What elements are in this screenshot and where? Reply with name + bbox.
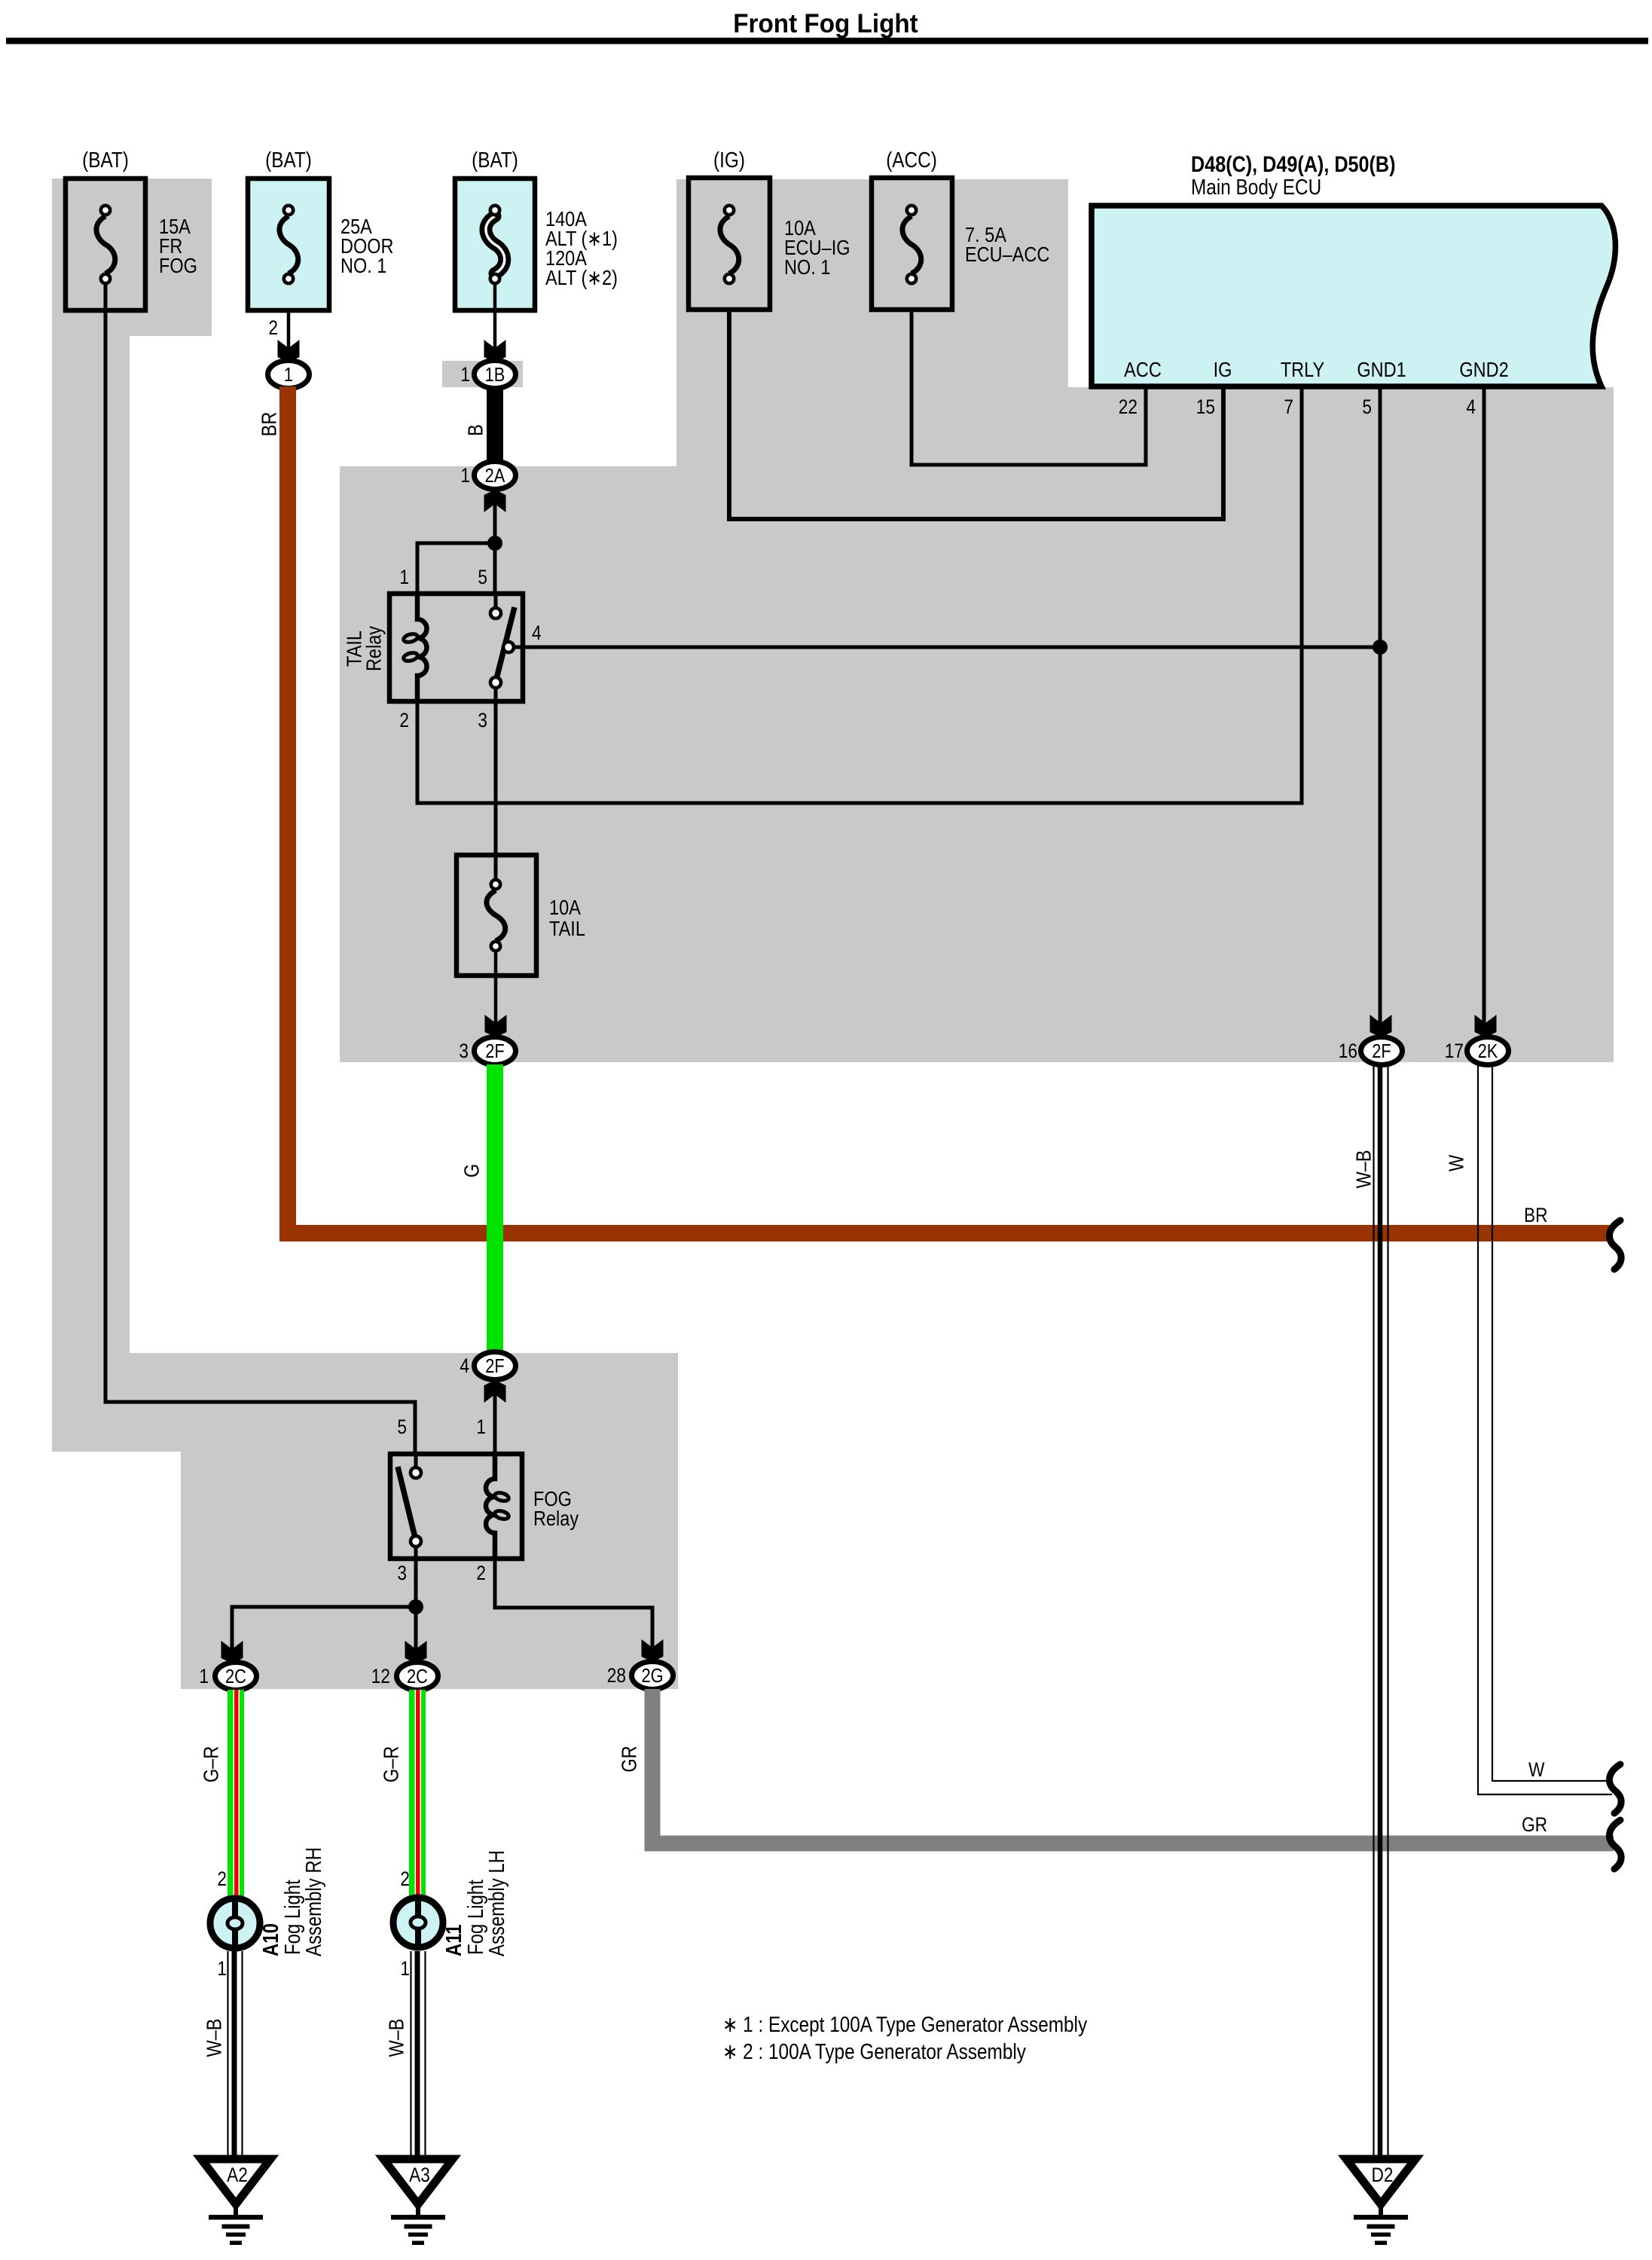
label W-B at A3 <box>386 2019 408 2057</box>
svg-text:GND1: GND1 <box>1357 359 1406 381</box>
wire G (green) 3 2F to 4 2F <box>487 1064 503 1354</box>
wire TAIL fuse to 3 2F <box>494 951 498 1026</box>
wire GR (gray) 28 2G to right edge <box>652 1689 1614 1843</box>
svg-text:5: 5 <box>397 1416 407 1438</box>
svg-text:FOG: FOG <box>159 255 197 277</box>
svg-text:(IG): (IG) <box>713 148 745 172</box>
wire FR FOG fuse down-left to FOG relay pin5 <box>105 283 415 1454</box>
connector 4 2F (oval) <box>475 1352 516 1380</box>
svg-text:2: 2 <box>217 1868 227 1890</box>
svg-text:1B: 1B <box>485 364 505 386</box>
svg-text:ALT (∗2): ALT (∗2) <box>545 267 618 289</box>
svg-text:2A: 2A <box>485 465 505 487</box>
svg-text:5: 5 <box>1362 395 1372 418</box>
label FOG relay pin 1 <box>476 1416 486 1438</box>
svg-text:3: 3 <box>397 1562 407 1584</box>
fog light bulb A11 <box>393 1895 443 1950</box>
svg-text:2G: 2G <box>641 1665 663 1687</box>
TAIL relay box <box>389 594 523 701</box>
svg-text:2: 2 <box>399 709 409 731</box>
label pin 2 at DOOR fuse <box>268 316 278 339</box>
wire W-B fog RH to ground A2 <box>228 1951 243 2156</box>
label (BAT) for 25A DOOR <box>265 148 312 172</box>
wire TAIL relay pin4 to GND1 line <box>513 646 1380 649</box>
svg-text:2F: 2F <box>485 1040 504 1062</box>
svg-text:TAIL: TAIL <box>549 918 585 940</box>
wire ECU-ACC fuse to ECU ACC pin22 <box>912 310 1146 465</box>
wire FOG relay pin3 down to junction <box>414 1559 418 1607</box>
svg-text:3: 3 <box>459 1040 469 1062</box>
arrow into 28 2G <box>642 1639 664 1662</box>
wire FOG relay pin2 to 28 2G <box>495 1559 652 1650</box>
svg-text:4: 4 <box>460 1354 469 1377</box>
note *1 *2 <box>722 2012 1088 2063</box>
svg-text:16: 16 <box>1339 1040 1357 1062</box>
FOG relay coil <box>486 1454 509 1559</box>
label pin 17 <box>1445 1040 1464 1062</box>
label (BAT) for 15A FR FOG <box>82 148 129 172</box>
label (ACC) <box>886 148 937 172</box>
label W-B at A2 <box>203 2019 226 2057</box>
label pin 4 at 2F <box>460 1354 469 1377</box>
label pin 2 at A11 <box>400 1868 410 1890</box>
svg-text:5: 5 <box>478 566 487 588</box>
wire BR (brown) connector 1 to right edge <box>288 386 1613 1233</box>
ECU pin number 15 <box>1196 395 1215 418</box>
arrow into connector 1 <box>278 340 300 362</box>
svg-text:Main Body ECU: Main Body ECU <box>1191 175 1321 199</box>
svg-text:BR: BR <box>258 412 281 437</box>
title Front Fog Light <box>733 9 918 38</box>
label pin 1 at 1B <box>460 363 470 386</box>
connector 1 2C (oval) <box>215 1663 257 1690</box>
svg-text:10A: 10A <box>549 896 582 919</box>
connector 1B (oval) <box>475 361 516 389</box>
svg-text:Assembly RH: Assembly RH <box>301 1847 325 1956</box>
wire ECU-IG fuse to ECU IG pin15 <box>729 310 1223 519</box>
continuation squiggle BR <box>1609 1220 1621 1269</box>
svg-text:15: 15 <box>1196 395 1215 418</box>
svg-text:1: 1 <box>460 464 470 487</box>
label (BAT) for ALT <box>472 148 518 172</box>
arrow into 16 2F <box>1370 1015 1392 1037</box>
wire junction to TAIL relay pin5 <box>493 543 497 594</box>
wire B (black) 1B to 2A <box>487 388 503 461</box>
svg-text:Front Fog Light: Front Fog Light <box>733 9 918 38</box>
label Main Body ECU <box>1191 175 1321 199</box>
ground A3 <box>383 2159 453 2245</box>
label pin 16 <box>1339 1040 1357 1062</box>
continuation squiggle W <box>1609 1764 1621 1813</box>
ECU D48/D49/D50 Main Body ECU box <box>1092 206 1615 386</box>
title rule <box>6 38 1648 44</box>
label G-R right <box>380 1746 403 1782</box>
svg-text:(BAT): (BAT) <box>265 148 312 172</box>
connector 1 (oval) <box>268 361 310 389</box>
arrow into 12 2C <box>405 1641 427 1663</box>
svg-text:W–B: W–B <box>386 2019 408 2057</box>
svg-text:2: 2 <box>476 1562 486 1584</box>
connector 17 2K (oval) <box>1467 1037 1509 1065</box>
ECU pin name GND2 <box>1459 359 1508 381</box>
wire ECU GND2 down <box>1483 386 1486 1026</box>
svg-text:GND2: GND2 <box>1459 359 1508 381</box>
fuse 10A TAIL box <box>457 855 536 976</box>
wire 2A to junction <box>493 501 497 543</box>
svg-text:Relay: Relay <box>363 626 386 671</box>
label TAIL relay pin 3 <box>478 709 487 731</box>
ECU pin number 5 <box>1362 395 1372 418</box>
svg-text:ECU–ACC: ECU–ACC <box>965 243 1049 266</box>
svg-text:NO. 1: NO. 1 <box>340 255 386 277</box>
label pin 1 at 2C <box>199 1665 209 1687</box>
ECU pin name TRLY <box>1281 359 1324 381</box>
junction block shading (left strip top, around 15A FR FOG fuse) <box>52 179 212 336</box>
ground D2 <box>1346 2159 1415 2245</box>
ECU pin name ACC <box>1124 359 1162 381</box>
label pin 1 at A11 <box>400 1957 410 1980</box>
wire fuse FR FOG inside stub <box>104 283 108 310</box>
svg-text:A11: A11 <box>441 1924 466 1956</box>
svg-text:IG: IG <box>1214 359 1232 381</box>
svg-text:1: 1 <box>460 363 470 386</box>
svg-text:ACC: ACC <box>1124 359 1162 381</box>
connector 12 2C (oval) <box>397 1663 438 1690</box>
wire ALT fusible link to 1B <box>493 283 497 351</box>
wire W (white) 17 2K to right edge <box>1478 1065 1612 1794</box>
label GR (vertical) <box>618 1745 641 1772</box>
svg-text:1: 1 <box>199 1665 209 1687</box>
fuse 15A FR FOG box <box>66 179 145 310</box>
connector 28 2G (oval) <box>632 1662 673 1690</box>
wire W-B 16 2F to ground D2 <box>1374 1065 1388 2156</box>
wire W-B fog LH to ground A3 <box>411 1951 426 2156</box>
svg-text:22: 22 <box>1119 395 1137 418</box>
fuse 7.5A ECU-ACC element <box>902 206 921 283</box>
svg-text:28: 28 <box>607 1664 626 1687</box>
svg-text:Assembly LH: Assembly LH <box>484 1850 508 1956</box>
svg-text:2F: 2F <box>1372 1040 1391 1062</box>
ground A2 <box>201 2159 270 2245</box>
svg-text:2: 2 <box>268 316 278 339</box>
svg-text:TRLY: TRLY <box>1281 359 1324 381</box>
svg-text:B: B <box>465 424 487 436</box>
svg-text:7: 7 <box>1284 395 1293 418</box>
svg-text:17: 17 <box>1445 1040 1464 1062</box>
label pin 1 at A10 <box>217 1957 227 1980</box>
ECU pin number 7 <box>1284 395 1293 418</box>
label D48(C), D49(A), D50(B) <box>1191 151 1395 177</box>
junction block shading (driver side J/B upper band) <box>52 1353 678 1452</box>
svg-text:1: 1 <box>217 1957 227 1980</box>
label 10A TAIL <box>549 896 585 940</box>
wire junction branch to 1 2C <box>232 1607 416 1651</box>
continuation squiggle GR <box>1609 1820 1621 1869</box>
TAIL relay contact <box>490 594 515 701</box>
FOG relay contact <box>398 1454 421 1559</box>
svg-text:G: G <box>461 1164 484 1177</box>
svg-text:∗ 1 : Except 100A Type Generat: ∗ 1 : Except 100A Type Generator Assembl… <box>722 2012 1088 2036</box>
label BR (vertical) <box>258 412 281 437</box>
wire junction down to 12 2C <box>414 1607 418 1651</box>
svg-text:4: 4 <box>532 621 542 644</box>
svg-text:(BAT): (BAT) <box>472 148 518 172</box>
svg-text:D48(C), D49(A), D50(B): D48(C), D49(A), D50(B) <box>1191 151 1395 177</box>
svg-text:BR: BR <box>1524 1204 1547 1226</box>
ECU pin number 22 <box>1119 395 1137 418</box>
label FOG relay pin 5 <box>397 1416 407 1438</box>
svg-text:GR: GR <box>1522 1813 1547 1836</box>
fog light bulb A10 <box>210 1896 260 1951</box>
svg-text:2: 2 <box>400 1868 410 1890</box>
fuse 10A ECU-IG element <box>720 206 739 283</box>
label FOG relay pin 3 <box>397 1562 407 1584</box>
arrow up into 2A <box>484 490 506 512</box>
svg-text:2C: 2C <box>407 1666 428 1687</box>
wire ECU GND1 down <box>1379 386 1382 1026</box>
label (IG) <box>713 148 745 172</box>
arrow into 17 2K <box>1475 1015 1497 1037</box>
label BR (at right) <box>1524 1204 1547 1226</box>
label pin 2 at A10 <box>217 1868 227 1890</box>
wire TAIL relay pin2 to ECU TRLY pin7 <box>417 386 1302 803</box>
wire G-R to fog light LH <box>409 1690 426 1898</box>
label pin 3 at 2F <box>459 1040 469 1062</box>
label FOG relay pin 2 <box>476 1562 486 1584</box>
connector 2A (oval) <box>475 462 516 490</box>
label TAIL relay pin 5 <box>478 566 487 588</box>
svg-text:4: 4 <box>1466 395 1476 418</box>
label TAIL Relay <box>344 626 386 671</box>
svg-text:A10: A10 <box>258 1923 282 1956</box>
arrow into connector 1B <box>484 340 506 362</box>
label pin 1 at 2A <box>460 464 470 487</box>
connector 16 2F (oval) <box>1361 1037 1403 1065</box>
svg-text:A3: A3 <box>409 2164 430 2186</box>
fuse 10A ECU-IG NO.1 box <box>689 178 770 310</box>
TAIL relay coil <box>403 594 427 701</box>
arrow into 1 2C <box>221 1641 243 1663</box>
svg-text:12: 12 <box>371 1665 390 1687</box>
svg-text:GR: GR <box>618 1745 641 1772</box>
svg-text:2K: 2K <box>1478 1040 1498 1062</box>
svg-text:A2: A2 <box>227 2164 248 2186</box>
svg-text:G–R: G–R <box>200 1746 223 1782</box>
svg-text:2C: 2C <box>225 1666 246 1687</box>
junction block shading (band behind connector 1B) <box>442 361 523 387</box>
junction block shading (left narrow strip) <box>52 336 130 1353</box>
svg-text:G–R: G–R <box>380 1746 403 1782</box>
FOG relay box <box>390 1454 522 1559</box>
ECU pin name GND1 <box>1357 359 1406 381</box>
label TAIL relay pin 1 <box>399 566 409 588</box>
connector 3 2F (oval) <box>475 1037 516 1065</box>
junction block shading (engine room R/B behind IG and ACC fuses) <box>676 179 1068 466</box>
svg-text:W–B: W–B <box>203 2019 226 2057</box>
fuse 10A TAIL element <box>487 880 505 951</box>
svg-text:D2: D2 <box>1372 2164 1394 2186</box>
label A10 Fog Light Assembly RH <box>258 1847 325 1956</box>
junction block shading (instrument panel J/B right part) <box>1068 387 1614 1062</box>
wire G-R to fog light RH <box>227 1690 244 1898</box>
label G <box>461 1164 484 1177</box>
junction node above TAIL relay <box>487 536 502 551</box>
svg-text:(ACC): (ACC) <box>886 148 937 172</box>
svg-text:1: 1 <box>476 1416 486 1438</box>
label TAIL relay pin 4 <box>532 621 542 644</box>
label GR (at right) <box>1522 1813 1547 1836</box>
wire DOOR fuse to connector 1 <box>287 310 291 351</box>
svg-text:1: 1 <box>284 364 293 386</box>
arrow into 3 2F <box>485 1015 507 1037</box>
wire TAIL relay pin3 to 10A TAIL fuse <box>494 701 498 880</box>
label 10A ECU-IG NO. 1 <box>784 217 850 279</box>
label 7. 5A ECU-ACC <box>965 224 1049 266</box>
svg-text:3: 3 <box>478 709 487 731</box>
svg-text:NO. 1: NO. 1 <box>784 256 830 279</box>
junction block shading (instrument panel J/B main, around TAIL relay) <box>340 466 1068 1062</box>
wire 4 2F to FOG relay pin1 <box>493 1392 497 1454</box>
svg-text:W: W <box>1446 1154 1468 1171</box>
fuse 25A DOOR NO.1 element <box>279 206 298 283</box>
svg-text:W: W <box>1528 1758 1545 1781</box>
svg-text:Relay: Relay <box>533 1507 579 1530</box>
svg-text:1: 1 <box>400 1957 410 1980</box>
svg-text:∗ 2 : 100A Type Generator Asse: ∗ 2 : 100A Type Generator Assembly <box>722 2039 1027 2063</box>
label pin 12 <box>371 1665 390 1687</box>
label W (at right) <box>1528 1758 1545 1781</box>
label TAIL relay pin 2 <box>399 709 409 731</box>
label 25A DOOR NO. 1 <box>340 215 394 277</box>
label FOG Relay <box>533 1488 579 1530</box>
arrow up into 4 2F <box>484 1380 506 1403</box>
label G-R left <box>200 1746 223 1782</box>
label B <box>465 424 487 436</box>
wire junction to TAIL relay pin1 <box>417 543 495 594</box>
label A11 Fog Light Assembly LH <box>441 1850 508 1956</box>
label 140A ALT <box>545 208 618 289</box>
ECU pin name IG <box>1214 359 1232 381</box>
svg-text:2F: 2F <box>485 1355 504 1377</box>
svg-text:1: 1 <box>399 566 409 588</box>
fusible link ALT element <box>486 206 505 283</box>
ECU pin number 4 <box>1466 395 1476 418</box>
junction dot on GND1 line <box>1373 640 1388 655</box>
label W-B (vertical) <box>1353 1150 1376 1189</box>
fuse 7.5A ECU-ACC box <box>872 178 952 310</box>
label 15A FR FOG <box>159 215 197 277</box>
fusible link 140A/120A ALT box <box>455 179 535 310</box>
svg-text:(BAT): (BAT) <box>82 148 129 172</box>
junction block shading (FOG relay block) <box>181 1452 678 1689</box>
fuse 25A DOOR NO.1 box <box>248 179 329 310</box>
junction node under FOG relay <box>408 1599 423 1614</box>
label pin 28 <box>607 1664 626 1687</box>
fuse 15A FR FOG element <box>96 206 115 283</box>
label W (vertical) <box>1446 1154 1468 1171</box>
svg-text:W–B: W–B <box>1353 1150 1376 1189</box>
